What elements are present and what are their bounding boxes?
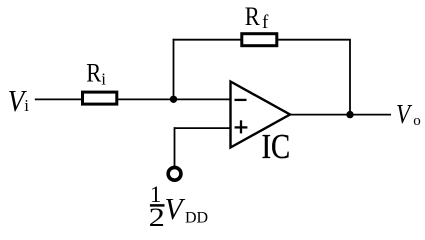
wire feedback right vertical (349, 40, 351, 115)
op-amp non-inverting input marking (plus) (235, 126, 248, 128)
svg-text:o: o (413, 113, 421, 129)
wire feedback top right segment (277, 39, 351, 41)
node junction at inverting input (170, 96, 177, 103)
wire feedback left vertical (173, 39, 175, 100)
wire Ri to op-amp inverting input (118, 98, 232, 100)
label Rf (245, 3, 269, 33)
node output junction (346, 111, 353, 118)
svg-text:i: i (24, 96, 29, 115)
wire feedback top left segment (173, 39, 242, 41)
wire non-inverting input vertical to bias terminal (174, 127, 176, 166)
svg-text:R: R (245, 3, 261, 32)
label Vo (396, 101, 421, 130)
label half VDD : fraction bar (150, 204, 165, 207)
resistor Ri (83, 92, 117, 104)
op-amp inverting input marking (minus) (235, 99, 247, 101)
wire output (290, 114, 391, 116)
label Vi (8, 85, 30, 119)
resistor Rf (242, 34, 277, 46)
label Ri (86, 59, 106, 89)
svg-text:IC: IC (262, 126, 291, 165)
svg-text:i: i (101, 69, 106, 88)
wire non-inverting input horizontal (175, 127, 232, 129)
svg-text:f: f (262, 12, 269, 33)
svg-text:2: 2 (149, 204, 165, 232)
svg-text:V: V (396, 101, 412, 130)
op-amp U1 triangle (231, 82, 291, 148)
svg-text:R: R (86, 59, 102, 88)
terminal circle (bias input) (168, 167, 181, 180)
svg-text:DD: DD (185, 209, 208, 226)
label VDD (165, 191, 209, 226)
wire input Vi to Ri (35, 98, 82, 100)
